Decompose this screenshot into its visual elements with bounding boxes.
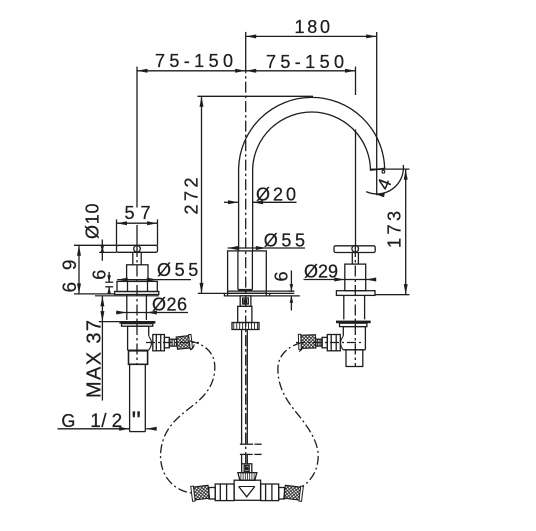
pipe break mark upper <box>240 443 253 445</box>
dimension 6 spout line <box>290 271 292 292</box>
left handle escutcheon <box>117 281 157 291</box>
left valve washer <box>122 324 153 327</box>
spout supply pipe <box>241 330 243 444</box>
spout threaded shank <box>238 306 252 322</box>
right side port adapter <box>322 337 327 347</box>
pipe break mark lower <box>240 453 253 455</box>
dimension 4deg arc <box>366 165 403 194</box>
left flex hose curve <box>161 341 215 493</box>
spout outlet face <box>370 169 385 170</box>
right valve mounting nut heavy bar <box>336 321 371 324</box>
dimension 4deg degree circle <box>382 170 385 173</box>
spout supply pipe lower <box>241 455 243 464</box>
dimension 180 line <box>246 35 377 37</box>
svg-text:Ø29: Ø29 <box>304 262 338 282</box>
spout base side extensions <box>227 293 229 296</box>
right valve washer <box>340 323 367 326</box>
spout shank fitting below deck <box>240 296 251 306</box>
svg-text:Ø10: Ø10 <box>82 204 102 240</box>
dimension 57 line <box>117 222 158 224</box>
centerline left handle <box>136 246 138 364</box>
dimension 69 bottom tick <box>74 293 115 295</box>
extension line right handle center <box>355 67 357 95</box>
deck line right <box>375 294 409 296</box>
left braided hose end <box>176 334 192 350</box>
left side port nipple <box>169 339 176 346</box>
dimension 6 left line <box>108 272 110 282</box>
left handle block <box>127 265 148 282</box>
extension line left handle center <box>136 67 138 208</box>
dimension phi29 line <box>304 279 371 281</box>
left escutcheon inner lines <box>127 281 129 291</box>
spout base body <box>228 251 267 293</box>
spout knurled nut <box>232 323 259 330</box>
right handle hub circle <box>352 246 359 253</box>
extension line 180 right <box>376 32 378 195</box>
deck line around spout <box>198 292 294 294</box>
right braided hose end <box>298 334 316 350</box>
right valve shank <box>343 295 345 319</box>
svg-text:Ø26: Ø26 <box>152 294 187 314</box>
extension lines 57 <box>116 219 118 245</box>
tee body <box>234 480 261 500</box>
right handle stem <box>351 253 353 265</box>
left handle bar <box>117 245 158 252</box>
left side port adapter <box>164 337 169 347</box>
left valve body <box>128 326 149 350</box>
right valve body <box>343 327 365 350</box>
dimension phi55 left line <box>117 279 191 281</box>
tee knurled cone <box>238 473 257 481</box>
right side port nut <box>327 335 340 351</box>
tee inlet fitting <box>242 464 252 473</box>
tee left nut <box>215 484 234 501</box>
centerline left side port <box>146 342 199 344</box>
left valve shank <box>126 295 128 321</box>
tee right nut <box>261 484 279 501</box>
dimension phi10 line <box>101 240 103 261</box>
dimension 75-150 right line <box>246 70 356 72</box>
dimension G 1/2 line <box>58 428 130 430</box>
extension line 173 top tick <box>371 168 409 170</box>
dimension MAX 37 line <box>101 296 103 401</box>
right handle bar <box>334 246 375 253</box>
left hose bend mark <box>190 344 194 350</box>
svg-text:Ø55: Ø55 <box>157 260 198 280</box>
spout base plate <box>224 293 299 296</box>
dimension 173 line <box>405 169 407 294</box>
spout base 6mm line <box>228 290 295 292</box>
dimension phi10 ticks <box>74 244 117 246</box>
right valve port fillet <box>341 336 344 350</box>
dimension phi55 spout line <box>228 247 305 249</box>
left valve mounting nut heavy bar <box>119 321 155 324</box>
right valve lower body <box>346 350 363 367</box>
left side port nut <box>153 335 165 351</box>
centerline right handle <box>354 246 356 366</box>
dimension MAX 37 tick <box>99 321 120 323</box>
dimension phi20 line <box>224 201 239 203</box>
extension line spout top <box>198 95 314 97</box>
centerline spout solid head <box>245 32 247 73</box>
left valve port fillet <box>149 336 152 350</box>
left valve G-thread section <box>129 351 148 365</box>
svg-text:180: 180 <box>295 17 331 37</box>
deck line left <box>95 295 159 297</box>
tee right braided <box>284 484 304 501</box>
right flex hose curve <box>278 343 318 488</box>
centerline spout <box>245 73 247 469</box>
right handle block <box>345 264 366 291</box>
tee right adapter <box>279 488 285 500</box>
svg-text:": " <box>132 405 141 435</box>
dimension 272 line <box>201 96 203 293</box>
tee left adapter <box>209 488 215 500</box>
dimension 75-150 left line <box>137 70 246 72</box>
left valve inlet tube <box>129 364 131 431</box>
svg-text:6: 6 <box>89 270 109 280</box>
dimension 69 line <box>78 245 80 294</box>
right escutcheon plate <box>336 291 375 296</box>
svg-text:6: 6 <box>271 271 291 281</box>
spout base inner bottom <box>238 289 253 291</box>
spout base inner tube lines <box>237 251 239 290</box>
spout gooseneck outline <box>239 97 385 251</box>
dimension 6 left ticks <box>105 281 113 283</box>
extension line 173 bottom <box>376 294 410 296</box>
left escutcheon plate <box>115 292 159 295</box>
right hose bend mark <box>299 346 303 352</box>
left valve inlet tube bottom <box>130 431 146 433</box>
spout shank inner square <box>243 298 249 304</box>
dimension phi26 line <box>116 312 188 314</box>
svg-text:173: 173 <box>385 211 405 248</box>
tee left braided <box>191 484 210 501</box>
svg-text:272: 272 <box>181 178 201 215</box>
right side port nipple <box>316 339 322 346</box>
left handle stem <box>132 252 134 264</box>
centerline right side port <box>296 342 362 344</box>
left handle hub circle <box>134 246 141 253</box>
tee funnel vee <box>239 487 255 497</box>
